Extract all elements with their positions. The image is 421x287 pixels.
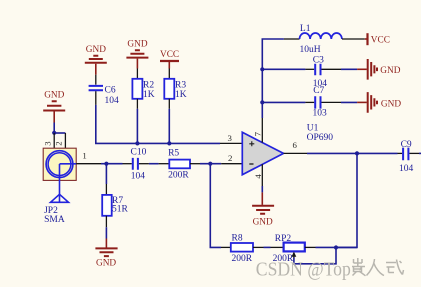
svg-text:GND: GND (96, 259, 116, 269)
svg-text:GND: GND (127, 40, 147, 50)
ground GND under R7 (95, 239, 117, 269)
ground GND above R2 (126, 40, 148, 69)
svg-text:U1: U1 (307, 123, 319, 133)
resistor R7 (102, 184, 128, 227)
wire output net (307, 152, 398, 154)
svg-text:C7: C7 (313, 86, 324, 96)
svg-text:VCC: VCC (371, 35, 390, 45)
svg-text:6: 6 (293, 140, 298, 150)
node pin2 junction (208, 162, 212, 166)
svg-text:7: 7 (252, 131, 262, 136)
wire R7 to GND (105, 227, 107, 238)
svg-text:1K: 1K (143, 90, 155, 100)
svg-text:VCC: VCC (160, 50, 179, 60)
wire feedback right leg (336, 153, 357, 247)
svg-text:SMA: SMA (44, 215, 65, 225)
node C3 junction (260, 67, 264, 71)
wire pin1 to junction (101, 163, 106, 165)
svg-text:1: 1 (82, 151, 86, 161)
potentiometer RP2 (271, 234, 316, 264)
op-amp U1 (242, 132, 283, 174)
resistor R2 (132, 69, 154, 109)
svg-text:CSDN @Top: CSDN @Top (256, 260, 351, 281)
wire C3 to GND (341, 68, 357, 70)
svg-text:51R: 51R (112, 205, 129, 215)
inductor L1 (284, 24, 365, 55)
pin 7 of U1 (252, 118, 262, 143)
wire R8 to RP2 (264, 246, 271, 248)
pin 2 of JP2 (54, 133, 66, 148)
resistor R8 (221, 233, 264, 264)
svg-text:GND: GND (253, 217, 273, 227)
node R2/bus (135, 141, 139, 145)
svg-text:R2: R2 (143, 81, 154, 91)
pin 3 of JP2 (43, 133, 55, 148)
wire junction down to R7 (105, 164, 107, 184)
svg-text:RP2: RP2 (275, 234, 292, 244)
svg-text:3: 3 (228, 133, 233, 143)
wire to C7 (262, 101, 305, 103)
svg-text:200R: 200R (232, 254, 253, 264)
wire R5 to pin2 junction (200, 163, 221, 165)
svg-text:3: 3 (43, 141, 53, 146)
svg-text:GND: GND (86, 45, 106, 55)
svg-text:1K: 1K (175, 90, 187, 100)
wire GND stem to JP2 pins (52, 123, 65, 135)
node R3/bus (167, 141, 171, 145)
resistor R3 (164, 69, 186, 109)
wire R2 to bus (136, 109, 138, 144)
capacitor C6 (89, 75, 119, 106)
wiper of RP2 (292, 249, 337, 264)
svg-text:L1: L1 (300, 24, 311, 34)
pin 3 of U1 (220, 133, 242, 144)
svg-text:GND: GND (380, 66, 400, 76)
svg-text:104: 104 (399, 164, 414, 174)
svg-text:C10: C10 (131, 148, 147, 158)
svg-text:C9: C9 (401, 140, 412, 150)
svg-text:R8: R8 (232, 233, 243, 243)
node wiper junction (334, 245, 338, 249)
wire to C3 (262, 68, 305, 70)
capacitor C9 (398, 140, 420, 174)
resistor R5 (159, 149, 200, 181)
svg-text:GND: GND (44, 91, 64, 101)
watermark CJK glyphs (352, 258, 404, 276)
wire pin4 to GND (261, 186, 263, 192)
wire feedback left leg (210, 164, 221, 248)
svg-text:103: 103 (313, 108, 328, 118)
capacitor C10 (123, 148, 149, 182)
svg-text:R3: R3 (175, 81, 186, 91)
ground GND right of C7 (357, 92, 401, 113)
pin 1 of JP2 (76, 151, 101, 164)
wire R3 to bus (168, 109, 170, 144)
svg-text:GND: GND (381, 99, 401, 109)
node C7 junction (260, 100, 264, 104)
svg-text:10uH: 10uH (300, 45, 321, 55)
ground GND right of C3 (357, 59, 401, 80)
power VCC above R3 (160, 50, 179, 69)
svg-text:C6: C6 (105, 86, 116, 96)
watermark CSDN (256, 260, 351, 281)
svg-text:OP690: OP690 (307, 133, 334, 143)
power VCC right of L1 (365, 33, 390, 45)
pin 6 of U1 (284, 140, 308, 154)
wire C10 to R5 (149, 163, 159, 165)
capacitor C3 (305, 55, 341, 89)
svg-text:2: 2 (228, 153, 232, 163)
node junction at R7 branch (104, 162, 108, 166)
wire C9 to edge (419, 152, 421, 154)
wire L1 top loop (262, 39, 284, 118)
svg-text:2: 2 (54, 141, 64, 145)
pin 2 of U1 (221, 153, 242, 164)
wire C7 to GND (341, 101, 357, 103)
capacitor C7 (305, 86, 341, 119)
svg-text:200R: 200R (168, 171, 189, 181)
ground GND under U1 (252, 192, 274, 227)
node output junction (355, 151, 359, 155)
wire RP2 to right leg (316, 246, 358, 248)
wire junction to C10 (106, 163, 122, 165)
connector JP2 body (43, 148, 76, 202)
pin 4 of U1 (253, 164, 263, 186)
svg-text:104: 104 (105, 96, 120, 106)
ground GND above C6 (85, 45, 107, 75)
ground GND (JP2 shield) (43, 91, 65, 123)
svg-text:4: 4 (253, 174, 263, 179)
wire C6 down to bias bus (96, 105, 220, 143)
antenna triangle of JP2 (51, 194, 69, 202)
svg-text:C3: C3 (313, 55, 324, 65)
svg-text:R5: R5 (168, 149, 179, 159)
svg-text:104: 104 (131, 171, 146, 181)
